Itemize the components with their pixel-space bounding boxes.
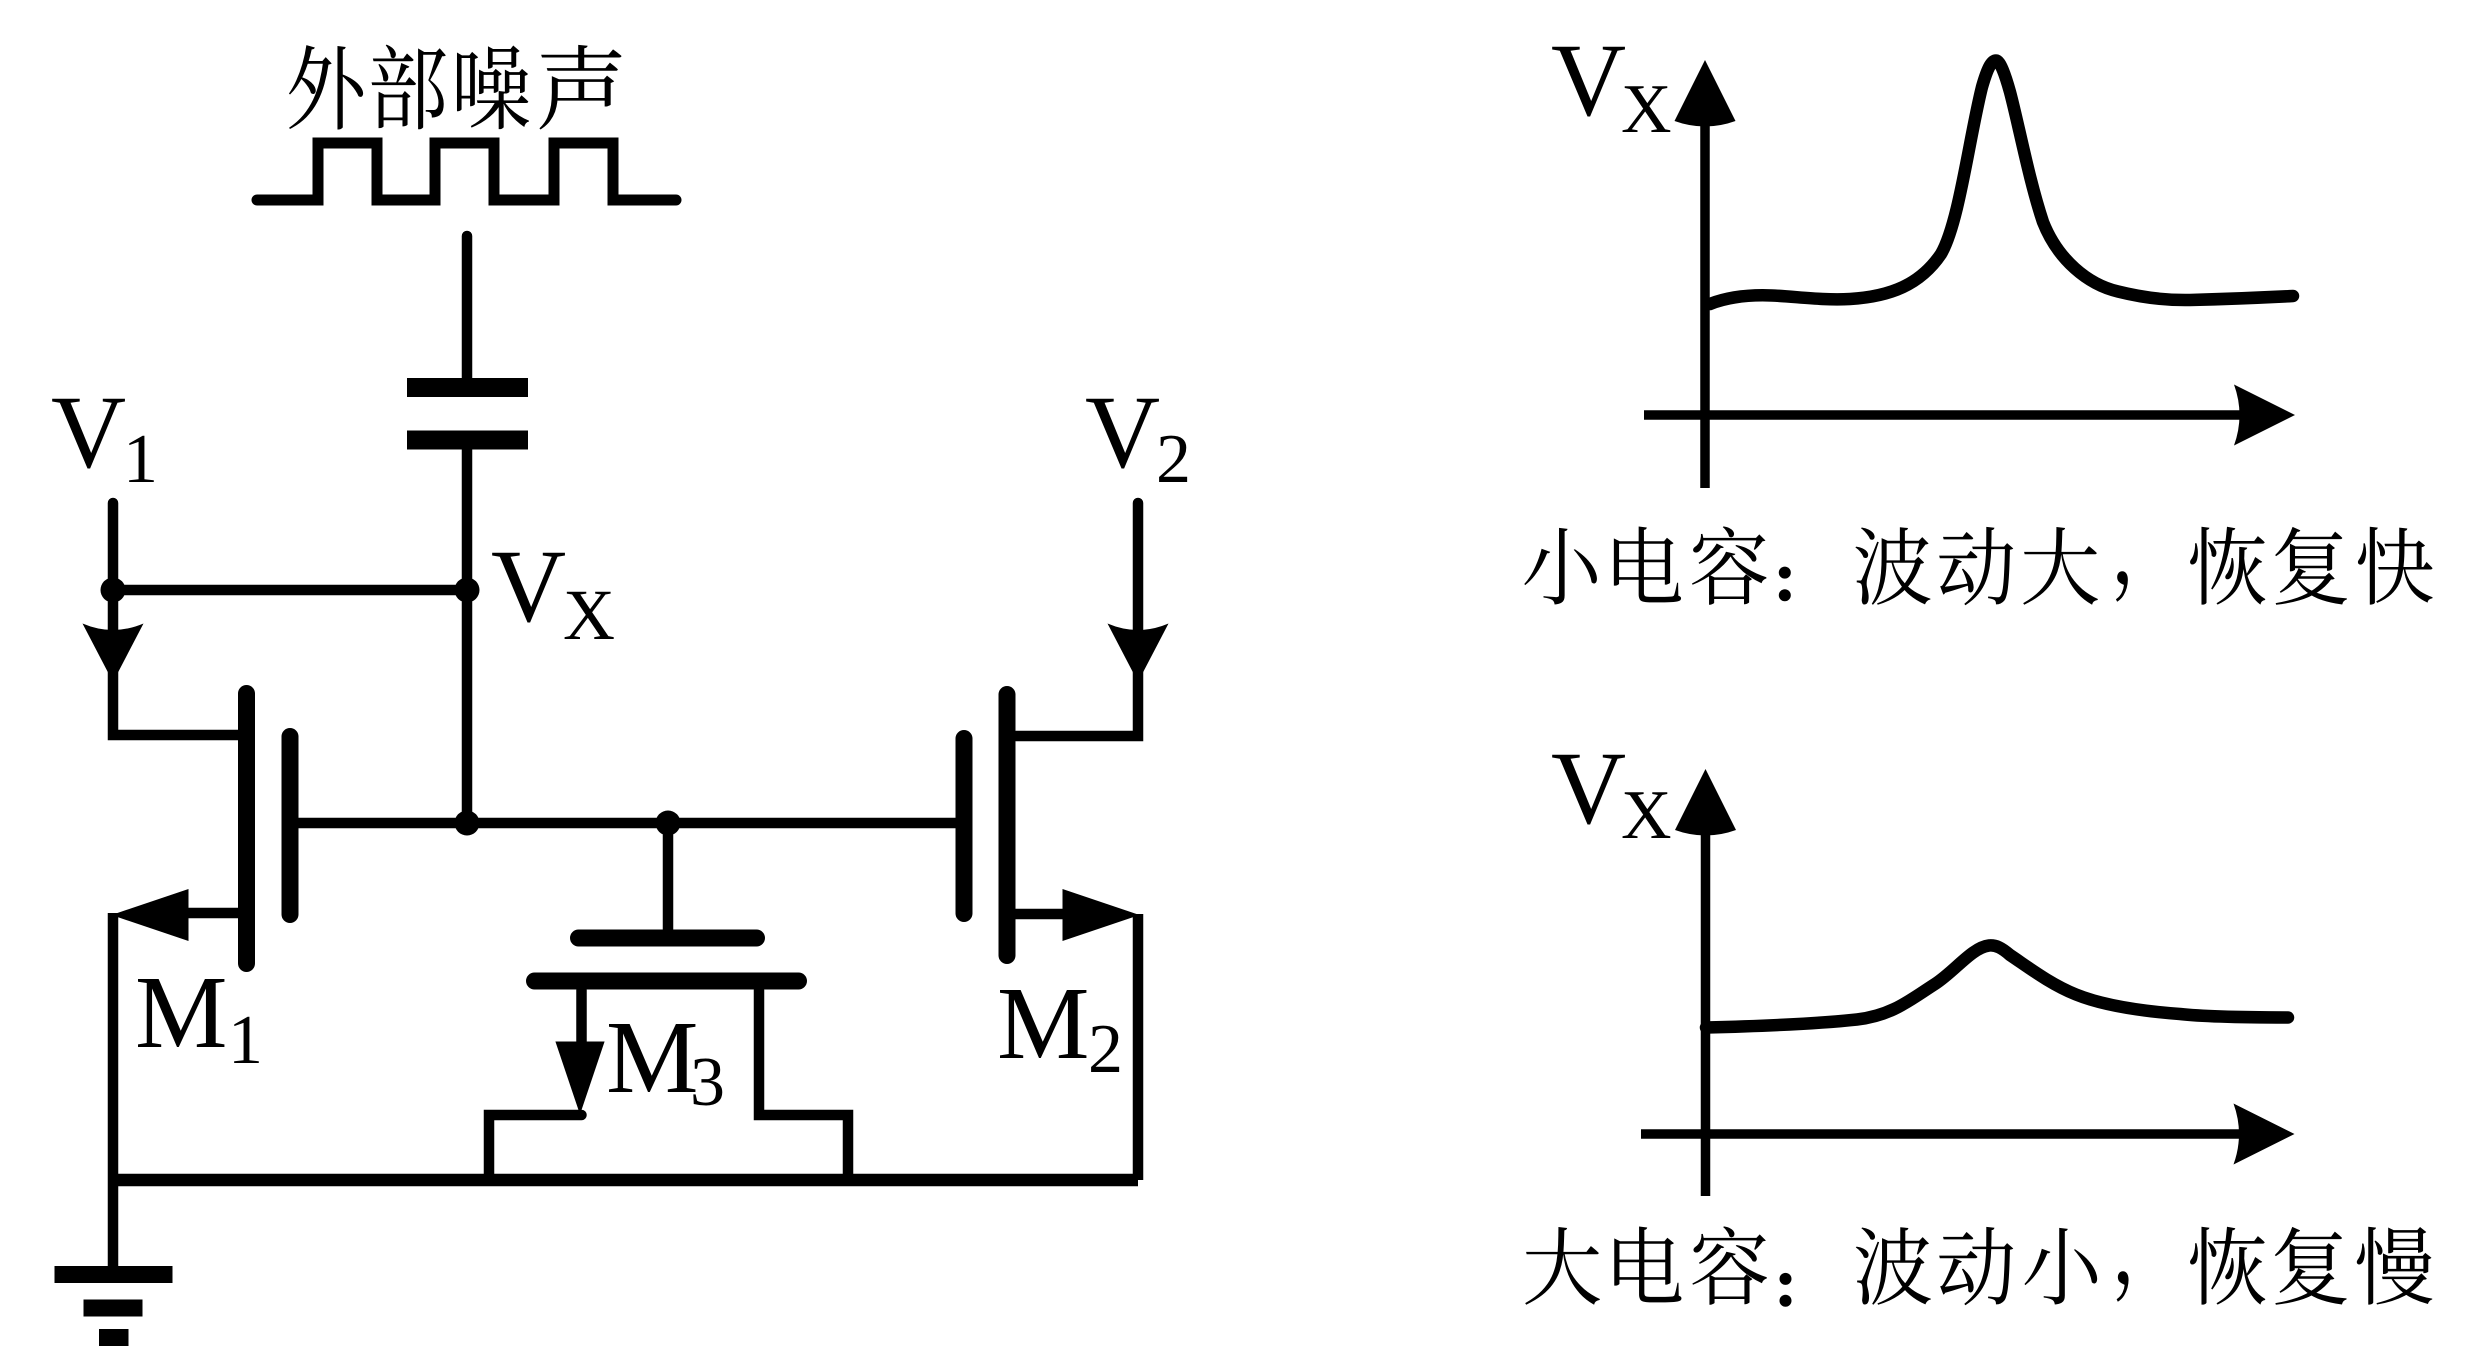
svg-text:V: V (1551, 731, 1626, 846)
svg-text:M: M (606, 1000, 698, 1115)
label V2 (1085, 375, 1191, 498)
wire: M2 source leg (1133, 914, 1144, 1180)
noise source square wave (257, 143, 676, 200)
transistor M1 (170, 694, 290, 964)
graph 1 x-axis (1644, 385, 2295, 446)
svg-text:M: M (997, 966, 1089, 1081)
wire: capacitor to node VX (462, 449, 473, 823)
svg-text:3: 3 (690, 1044, 725, 1121)
transistor M2 (964, 695, 1070, 956)
svg-text:V: V (1551, 23, 1626, 138)
transistor M3 (489, 823, 848, 1180)
junction dot gate bus / M3 gate (656, 811, 681, 836)
capacitor C1 (407, 388, 528, 441)
label M3 (606, 1000, 725, 1121)
wire: gate bus M1-M3-M2 (295, 818, 956, 829)
svg-text:X: X (563, 575, 615, 655)
wire: V2 input lead (1016, 503, 1138, 736)
arrow on M2 source (1063, 889, 1140, 941)
svg-text:V: V (491, 529, 566, 644)
graph 1 label VX (1551, 23, 1672, 148)
svg-text:1: 1 (123, 421, 158, 498)
label V1 (51, 375, 158, 498)
label: external noise 外部噪声 (289, 45, 622, 130)
junction dot at VX node (455, 578, 480, 603)
graph 2 caption 大电容：波动小，恢复慢 (1525, 1226, 2432, 1306)
wire: ground stem (108, 1180, 119, 1268)
graph 2 curve: large capacitor response (1706, 945, 2288, 1027)
arrow on M3 source (555, 1042, 604, 1115)
svg-text:V: V (51, 375, 126, 490)
arrow on V2 input (1108, 624, 1169, 683)
wire: V1 input lead (113, 503, 243, 735)
bottom ground rail (108, 1174, 1138, 1187)
graph 2 label VX (1551, 731, 1672, 854)
graph 2 x-axis (1641, 1104, 2295, 1165)
svg-text:M: M (135, 955, 227, 1070)
svg-text:2: 2 (1156, 421, 1191, 498)
graph 1 curve: small capacitor response (1710, 61, 2293, 305)
svg-text:2: 2 (1088, 1011, 1123, 1088)
label VX (491, 529, 615, 655)
junction dot gate bus / VX (455, 811, 480, 836)
wire: noise to capacitor (462, 236, 473, 378)
graph 1 y-axis (1675, 60, 1736, 488)
arrow on V1 input (83, 624, 144, 683)
label M2 (997, 966, 1123, 1088)
graph 2 y-axis (1675, 769, 1736, 1196)
svg-text:X: X (1621, 71, 1672, 148)
wire: VX horizontal to V1 (113, 585, 467, 596)
junction dot at V1/VX wire (101, 578, 126, 603)
svg-text:X: X (1621, 777, 1672, 854)
arrow on M1 source (112, 889, 189, 941)
wire: left source leg to ground rail (108, 913, 119, 1180)
label M1 (135, 955, 263, 1079)
ground symbol (55, 1275, 173, 1338)
graph 1 caption 小电容：波动大，恢复快 (1524, 526, 2432, 605)
svg-text:1: 1 (228, 1002, 263, 1079)
svg-text:V: V (1085, 375, 1160, 490)
